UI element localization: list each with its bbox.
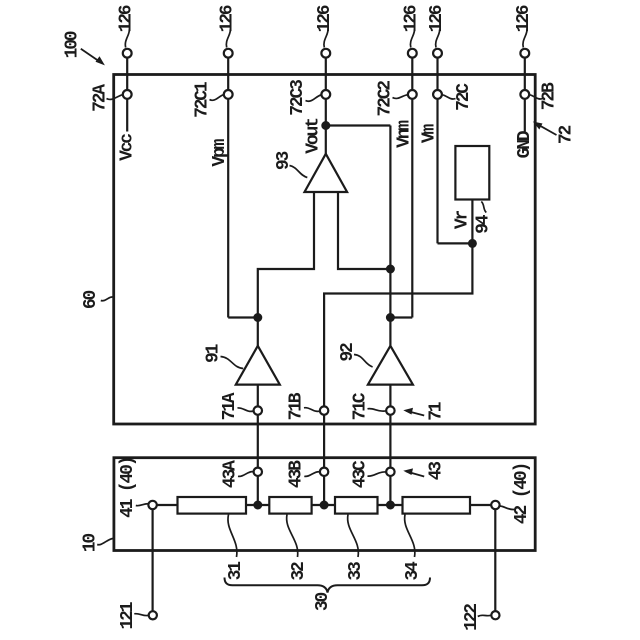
svg-text:93: 93 (274, 152, 294, 171)
node circle 43A (254, 468, 262, 476)
op-amp U91 (236, 346, 280, 385)
leader tilde 126 col1 (125, 30, 129, 48)
brace 30 (225, 578, 431, 593)
terminal circle 126 col4 (408, 49, 417, 58)
leader tilde 71A (238, 408, 254, 412)
arrow 43 (406, 471, 424, 476)
leader tilde 72C (443, 95, 456, 99)
op-amp U93 (305, 154, 348, 192)
wire Vm jog to Vr node (438, 242, 473, 244)
module box 60 (114, 75, 536, 425)
wire amp91 input (257, 385, 259, 407)
leader curve 91 (221, 357, 244, 369)
wire 71A to 43A (257, 415, 259, 468)
svg-text:Vcc: Vcc (117, 134, 137, 161)
terminal circle 72C1 (224, 90, 233, 99)
svg-text:71A: 71A (220, 392, 240, 420)
junction dot Vnm/amp92 (387, 314, 394, 321)
wire Vpm jog to node (228, 316, 258, 318)
wire 43A to resistor node (257, 476, 259, 505)
node circle 71B (320, 406, 328, 414)
wire amp92 input (389, 385, 391, 407)
wire GND outer lead (524, 57, 526, 90)
leader tilde 71C (368, 409, 387, 412)
svg-text:91: 91 (204, 343, 224, 363)
leader squiggle R34 (405, 515, 415, 558)
svg-text:126: 126 (402, 5, 422, 32)
node circle 71A (254, 406, 262, 414)
terminal circle 126 col1 (123, 49, 132, 58)
resistor R32 (269, 497, 311, 514)
arrow 71 (406, 411, 424, 416)
wire Vcc outer lead (126, 57, 128, 90)
leader tilde 42 (500, 506, 515, 510)
wire GND inner (524, 99, 526, 132)
leader tilde 122 (478, 615, 491, 616)
wire 41 to R31 (157, 504, 178, 506)
leader tilde 94 (481, 202, 486, 213)
wire R33 to R34 (378, 504, 403, 506)
terminal circle 41 (148, 501, 156, 509)
wire 71B to 43B (323, 415, 325, 468)
wire feedback horizontal (326, 124, 391, 126)
leader squiggle R31 (228, 515, 237, 558)
leader tilde 126 col6 (523, 30, 527, 48)
wire Vpm vertical (227, 99, 229, 318)
svg-text:43: 43 (426, 462, 446, 481)
svg-text:72: 72 (557, 126, 577, 145)
wire lead 121 (152, 509, 154, 611)
node circle 43C (386, 468, 394, 476)
wire Vout to amp93 output (325, 99, 327, 154)
svg-text:Vr: Vr (453, 211, 473, 230)
svg-text:Vout: Vout (304, 118, 324, 154)
svg-text:71: 71 (426, 401, 446, 421)
wire 71C to 43C (389, 415, 391, 468)
wire Vcc inner (126, 99, 128, 132)
svg-text:33: 33 (346, 562, 366, 581)
leader tilde 72C1 (210, 95, 224, 101)
junction dot R31/R32 (254, 502, 261, 509)
svg-text:126: 126 (315, 5, 335, 32)
node circle 71C (386, 406, 394, 414)
terminal circle 126 col6 (520, 49, 529, 58)
leader tilde 43B (304, 472, 320, 477)
svg-text:Vm: Vm (419, 124, 439, 144)
resistor R33 (335, 497, 378, 514)
wire 43B to resistor node (323, 476, 325, 505)
wire Vnm vertical (411, 99, 413, 318)
svg-text:72C2: 72C2 (376, 81, 396, 117)
terminal circle 72C2 (408, 90, 417, 99)
wire amp93 right input jog (338, 192, 390, 269)
svg-text:Vpm: Vpm (210, 138, 230, 166)
svg-text:43A: 43A (220, 460, 240, 488)
leader tilde 71B (304, 408, 320, 412)
junction dot amp93 right input (387, 266, 394, 273)
wire amp93 left input jog (258, 192, 314, 346)
junction dot Vout feedback (322, 122, 329, 129)
leader squiggle R33 (348, 515, 359, 558)
svg-text:72C3: 72C3 (288, 80, 308, 116)
svg-text:Vnm: Vnm (394, 120, 414, 148)
wire R31 to R32 (246, 504, 269, 506)
wire lead 122 (494, 509, 496, 611)
svg-text:92: 92 (338, 343, 358, 362)
wire Vpm outer lead (227, 57, 229, 90)
leader tilde 41 (136, 504, 148, 506)
svg-text:GND: GND (515, 130, 535, 158)
svg-text:71B: 71B (287, 392, 307, 420)
leader tilde 10 (97, 539, 113, 545)
leader tilde 126 col4 (410, 30, 414, 48)
leader tilde 72B (530, 95, 543, 99)
svg-text:30: 30 (313, 593, 333, 612)
svg-text:71C: 71C (351, 392, 371, 420)
resistor R31 (178, 497, 247, 514)
svg-text:72C1: 72C1 (192, 81, 212, 118)
svg-text:126: 126 (427, 5, 447, 32)
svg-text:121: 121 (118, 601, 138, 629)
terminal circle 126 col5 (433, 49, 442, 58)
svg-text:122: 122 (462, 604, 482, 631)
leader tilde 43A (238, 472, 254, 477)
reference block 94 Vr (455, 146, 489, 200)
op-amp U92 (368, 346, 413, 385)
svg-text:72A: 72A (90, 84, 110, 112)
wire feedback vertical to amp92 (389, 126, 391, 346)
wire Vm vertical (436, 99, 438, 244)
arrow 100 (81, 49, 102, 64)
wire R32 to R33 (312, 504, 335, 506)
lead circle 121 (149, 611, 157, 619)
svg-text:34: 34 (403, 561, 423, 581)
terminal circle 72A (123, 90, 132, 99)
svg-text:94: 94 (474, 214, 494, 234)
wire Vnm jog to node (390, 316, 412, 318)
leader tilde 121 (134, 614, 148, 616)
svg-text:72B: 72B (539, 82, 559, 110)
terminal circle 72C3 (321, 90, 330, 99)
wire Vm outer lead (436, 57, 438, 90)
svg-text:126: 126 (514, 5, 534, 32)
leader tilde 72C3 (306, 95, 321, 101)
leader squiggle R32 (287, 515, 298, 558)
svg-text:100: 100 (62, 31, 82, 58)
junction dot R32/R33 (321, 502, 328, 509)
svg-text:126: 126 (218, 5, 238, 32)
wire 43C to resistor node (389, 476, 391, 505)
svg-text:31: 31 (226, 561, 246, 581)
leader tilde 43C (368, 472, 387, 476)
svg-text:42 (40): 42 (40) (512, 464, 532, 524)
terminal circle 126 col2 (224, 49, 233, 58)
resistor R34 (403, 497, 471, 514)
svg-text:43C: 43C (351, 460, 371, 488)
leader tilde 126 col3 (324, 30, 328, 48)
svg-text:43B: 43B (287, 460, 307, 488)
leader curve 92 (354, 355, 373, 368)
leader tilde 72A (107, 95, 123, 100)
leader tilde 60 (101, 297, 113, 301)
wire Vout outer lead (325, 57, 327, 90)
junction dot node Vpm/amp91 (254, 314, 261, 321)
junction dot Vm/Vr (469, 240, 476, 247)
junction dot R33/R34 (387, 502, 394, 509)
terminal circle 42 (491, 501, 499, 509)
lead circle 122 (491, 611, 499, 619)
leader curve 93 (290, 166, 308, 178)
terminal circle 72C (433, 90, 442, 99)
wire R34 to 42 (470, 504, 491, 506)
svg-text:126: 126 (117, 5, 137, 32)
arrow 72 (536, 123, 557, 135)
svg-text:10: 10 (81, 534, 101, 553)
svg-text:60: 60 (81, 291, 101, 310)
leader tilde 72C2 (393, 95, 408, 99)
wire Vr output (324, 200, 472, 407)
terminal circle 126 col3 (321, 49, 330, 58)
terminal circle 72B (520, 90, 529, 99)
leader tilde 126 col5 (436, 30, 440, 48)
node circle 43B (320, 468, 328, 476)
substrate box 10 (114, 458, 535, 551)
svg-text:72C: 72C (454, 83, 474, 111)
svg-text:32: 32 (289, 562, 309, 581)
svg-text:41 (40): 41 (40) (118, 458, 138, 518)
wire Vnm outer lead (411, 57, 413, 90)
leader tilde 126 col2 (226, 30, 230, 48)
